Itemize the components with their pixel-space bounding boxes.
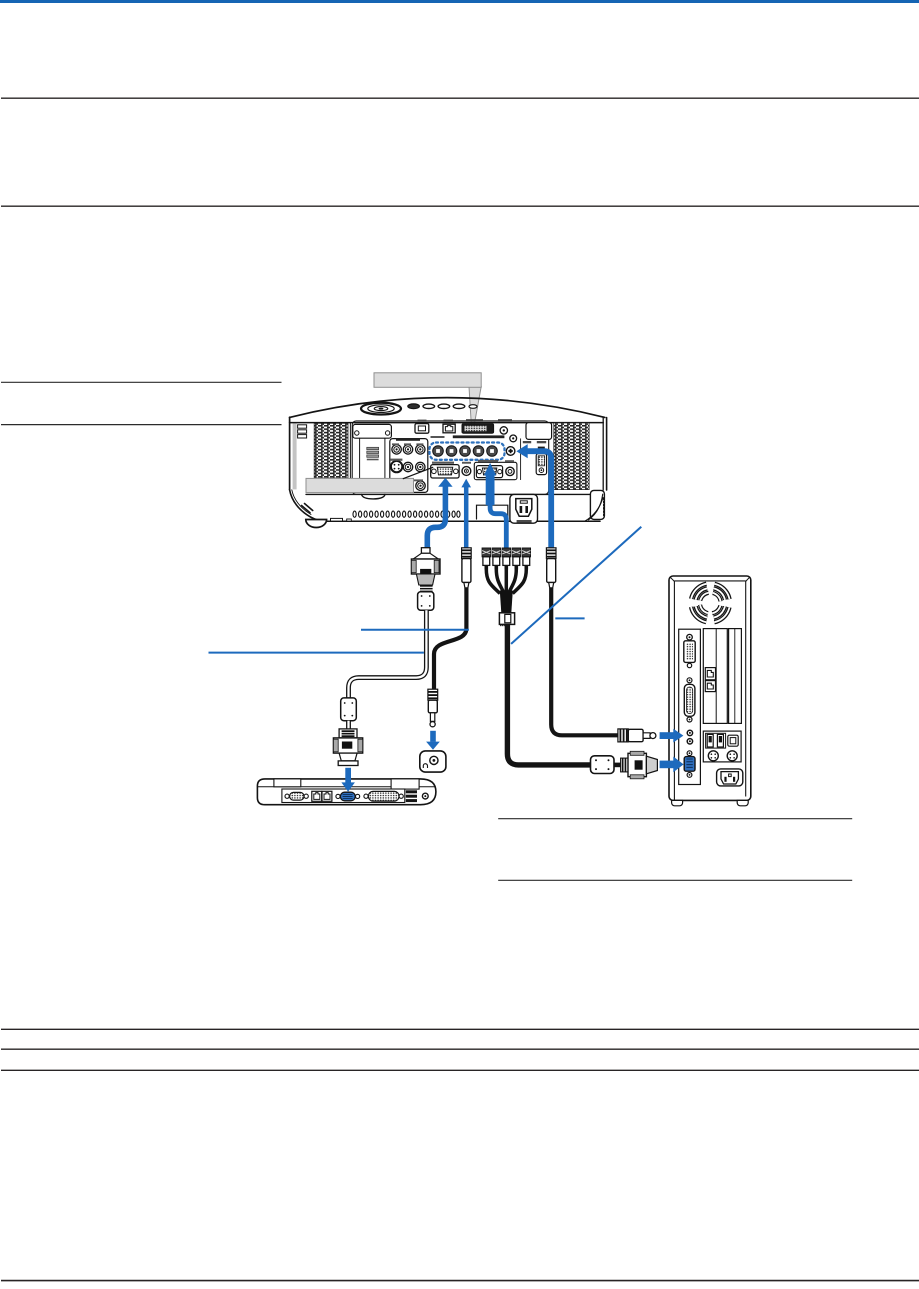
NIC jacks [705, 668, 715, 680]
inner bevel lines [674, 580, 745, 582]
short underline 2 [1, 424, 282, 426]
recessed connector panel outline [352, 421, 549, 495]
projector [290, 398, 607, 528]
right foot [590, 490, 604, 519]
port recess [282, 789, 405, 803]
VGA port blue [687, 751, 692, 756]
parallel port [364, 794, 368, 798]
blue leader line to PC audio cable [555, 617, 584, 619]
expansion slot covers [703, 629, 727, 724]
remote slot [538, 447, 545, 450]
COMPUTER 1 IN DB15 [431, 465, 459, 478]
lens focus rings on top [361, 403, 401, 415]
kensington stack [298, 425, 307, 428]
center bottom recess bump [362, 494, 386, 499]
left vent grille [314, 423, 348, 478]
top blue header bar [0, 0, 919, 3]
blue arrow into AUDIO IN jack [461, 479, 471, 488]
blue leader line to VGA cable [209, 652, 424, 654]
small bottom tabs [331, 518, 343, 521]
top connector row: DVI-D [462, 424, 494, 433]
VGA connector right-pointing: stripes [621, 758, 628, 772]
blue leader line to audio cable [361, 629, 469, 631]
serial port [285, 794, 289, 798]
DVI out [687, 634, 693, 640]
cluster 2 box [474, 462, 517, 479]
main cable to PC [507, 624, 590, 765]
short underline 1 [1, 381, 282, 383]
note rule right 1 [498, 818, 852, 820]
blue cable from port [427, 486, 445, 549]
audio wall plate [420, 751, 446, 772]
round audio-in connector [506, 447, 515, 456]
VGA plug body [411, 559, 440, 574]
gray callout top (points to DVI port) [374, 373, 481, 425]
PC CONTROL DB9 [536, 454, 546, 475]
S-video DIN [391, 461, 402, 472]
handle recess [477, 505, 508, 519]
top connector row: LAN RJ45 [443, 424, 455, 433]
panel top line [290, 422, 604, 424]
D-shell [646, 756, 657, 774]
black cable with S-bend [434, 588, 466, 690]
blue arrow down into plate [430, 731, 436, 742]
vents [406, 790, 417, 793]
laptop VGA port (blue) [336, 794, 340, 798]
BNC plug bundle [482, 548, 530, 569]
ferrite core lower [341, 698, 357, 721]
rule under title [1, 97, 919, 99]
VGA plug (up) neck [421, 548, 430, 554]
fan grille [684, 577, 736, 629]
black cable down and right [551, 588, 618, 735]
screw circle [500, 427, 507, 434]
parallel port [687, 678, 692, 683]
body [628, 753, 646, 776]
right vent grille [554, 423, 589, 490]
VGA connector (down) hood [339, 729, 357, 738]
body bottom line [306, 493, 603, 495]
video cluster box [390, 439, 428, 493]
callout leader to COMPUTER1 [403, 467, 433, 479]
small round connector [510, 435, 517, 442]
blue arrow into COMPUTER 1 IN [438, 478, 452, 487]
trunk [500, 591, 513, 614]
bottom table rule 2 [1, 1048, 919, 1050]
short cable [346, 721, 351, 729]
RCA bottom [416, 481, 425, 490]
BNC connectors [433, 446, 498, 457]
bottom slot row [353, 511, 460, 517]
bottom table rule 3 [1, 1069, 919, 1071]
big blue arrow into BNC group [484, 463, 496, 476]
left front foot [306, 520, 327, 528]
blue arrow down into laptop [345, 768, 351, 783]
blue arrow left into round jack [516, 444, 527, 458]
D-shell bottom [339, 753, 357, 761]
tower outer shell [669, 576, 751, 800]
REMOTE / PC CONTROL labels [523, 441, 531, 443]
power cord curves [589, 494, 603, 520]
junction block [499, 613, 514, 625]
note rule right 2 [498, 879, 852, 881]
VGA plug shoulder [413, 553, 438, 559]
label smudges top row [418, 420, 427, 422]
power socket [422, 793, 428, 799]
blue arrow right into PC audio [660, 732, 674, 739]
AC inlet [510, 494, 538, 523]
laptop body [257, 779, 436, 805]
left shade strip [293, 423, 297, 489]
tower AC inlet [717, 769, 743, 786]
RCA video row2 [403, 462, 412, 471]
converging wires [486, 569, 500, 594]
IO column [679, 629, 701, 784]
page footer rule [1, 1280, 919, 1282]
COMPUTER2 label bar [453, 435, 505, 438]
hinge notches [274, 779, 301, 787]
mini plug up collar [546, 548, 556, 559]
top button row [408, 404, 420, 409]
USB / PS2 panel [703, 731, 741, 762]
bottom rim line [324, 520, 600, 522]
panel divider [520, 439, 522, 480]
blue bend under projector [490, 503, 506, 549]
mini plug right: collar stripes [618, 729, 628, 742]
strain relief stripes [420, 585, 433, 587]
left bottom shell curve [290, 490, 325, 522]
blue diagonal leader to component cable [511, 527, 641, 644]
feet [672, 800, 683, 805]
VGA plug D-shell [416, 574, 435, 585]
gray callout left (covers lower-left of panel) [306, 478, 414, 492]
top connector row: USB-B [415, 424, 429, 434]
RCA audio row [392, 445, 401, 454]
ferrite core upper [418, 592, 434, 610]
mini plug down at plate: collar [428, 689, 438, 700]
mini plug up: collar stripes [462, 548, 472, 559]
modem/LAN jacks [312, 791, 322, 801]
plug body [462, 559, 471, 583]
left edge [289, 417, 291, 490]
body [333, 738, 362, 753]
top arc of body [290, 398, 605, 418]
bottom table rule 1 [1, 1028, 919, 1030]
ferrite core [591, 756, 615, 774]
blue arrow into PC VGA [660, 761, 674, 769]
audio mini jack [462, 467, 471, 476]
white cable with outline [349, 610, 427, 698]
lamp cover [349, 423, 351, 479]
audio jacks [687, 730, 692, 735]
rule under intro [1, 205, 919, 207]
blank plate top-right [526, 423, 552, 440]
dashed blue BNC box [430, 443, 505, 460]
right edge double [602, 417, 604, 490]
